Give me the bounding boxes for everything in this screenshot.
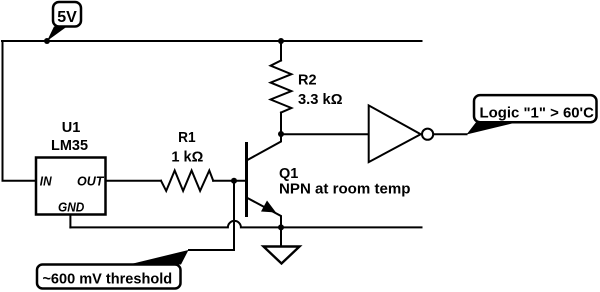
svg-text:5V: 5V — [57, 9, 77, 26]
svg-text:Logic "1" > 60'C: Logic "1" > 60'C — [480, 104, 595, 121]
svg-text:U1: U1 — [62, 120, 81, 136]
svg-text:OUT: OUT — [77, 174, 104, 189]
svg-text:R1: R1 — [178, 130, 196, 146]
svg-text:R2: R2 — [298, 73, 317, 89]
svg-text:GND: GND — [58, 200, 85, 215]
svg-text:~600 mV threshold: ~600 mV threshold — [42, 270, 172, 287]
svg-text:1 kΩ: 1 kΩ — [171, 149, 203, 165]
svg-text:3.3 kΩ: 3.3 kΩ — [298, 92, 343, 108]
svg-text:Q1: Q1 — [279, 166, 298, 182]
svg-text:LM35: LM35 — [51, 138, 88, 154]
svg-text:IN: IN — [40, 174, 52, 189]
svg-text:NPN at room temp: NPN at room temp — [279, 182, 411, 198]
